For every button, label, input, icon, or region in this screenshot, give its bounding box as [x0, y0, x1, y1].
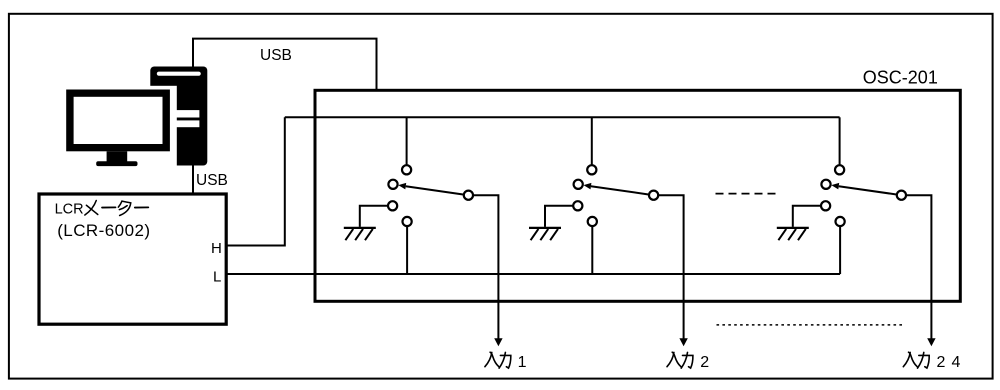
switch 1: selector arm	[406, 186, 469, 195]
tower top slot	[157, 72, 201, 76]
monitor frame	[66, 90, 170, 152]
switch 3: pole circle	[897, 191, 906, 200]
label input 2	[667, 352, 709, 371]
switch 1: contact circle top	[402, 165, 411, 174]
svg-text:LCR: LCR	[55, 202, 84, 218]
dotted continuation line bottom	[717, 324, 905, 326]
switch 3: contact circle throw	[821, 180, 830, 189]
svg-text:(LCR-6002): (LCR-6002)	[57, 221, 150, 240]
switch 1: wire top drop	[406, 117, 408, 170]
switch 3: ground stem	[793, 206, 826, 227]
switch 1: contact circle throw	[388, 180, 397, 189]
svg-text:USB: USB	[196, 172, 228, 189]
monitor stand base	[96, 161, 137, 166]
wire top bus (H line)	[285, 116, 840, 118]
arrowhead input 2	[679, 338, 687, 346]
label LCR meter line 1	[55, 201, 149, 218]
switch 1: ground hatch strokes	[345, 229, 372, 240]
switch 3: contact circle top	[835, 165, 844, 174]
switch 1: pole circle	[464, 191, 473, 200]
switch 2: wire top drop	[591, 117, 593, 170]
switch 3: contact circle ground	[821, 201, 830, 210]
label input 24	[903, 352, 960, 371]
switch 1: wire bottom drop	[406, 222, 408, 275]
OSC-201 box	[315, 90, 960, 301]
switch 3: wire bottom drop	[839, 222, 841, 275]
switch 2: contact circle top	[587, 165, 596, 174]
switch 1: contact circle bottom	[403, 217, 412, 226]
switch 2: selector arm	[591, 186, 654, 195]
computer tower	[150, 67, 207, 166]
wire bottom bus (L line)	[226, 273, 840, 275]
svg-text:1: 1	[518, 354, 527, 371]
svg-text:L: L	[213, 269, 221, 286]
wire USB from PC to LCR meter	[192, 165, 194, 194]
white gap between monitor and tower	[62, 86, 177, 169]
switch 3: ground hatch strokes	[778, 229, 805, 240]
switch 2: pole circle	[649, 191, 658, 200]
switch 1: ground stem	[360, 206, 393, 227]
monitor stand neck	[107, 151, 128, 162]
svg-text:4: 4	[952, 354, 961, 371]
switch 2: contact circle ground	[573, 201, 582, 210]
switch 1: pole wire to input 1	[468, 195, 498, 339]
svg-text:2: 2	[937, 354, 946, 371]
svg-text:2: 2	[700, 354, 709, 371]
switch 2: arm arrowhead	[584, 183, 592, 190]
arrowhead input 1	[494, 338, 502, 346]
wire H from LCR meter to top bus	[226, 117, 285, 245]
svg-text:USB: USB	[260, 47, 292, 64]
label input 1	[485, 352, 527, 371]
switch 2: contact circle bottom	[588, 217, 597, 226]
switch 3: contact circle bottom	[836, 217, 845, 226]
switch 1: arm arrowhead	[398, 183, 406, 190]
switch 3: ground bar	[777, 227, 809, 229]
dashed continuation line between switch 2 and 3	[716, 193, 781, 195]
arrowhead input 24	[927, 338, 935, 346]
svg-text:OSC-201: OSC-201	[863, 68, 938, 88]
switch 3: selector arm	[839, 186, 902, 195]
wire USB from PC to OSC-201	[193, 39, 377, 90]
LCR meter box	[39, 194, 226, 324]
switch 1: ground bar	[344, 227, 376, 229]
switch 2: ground hatch strokes	[531, 229, 558, 240]
switch 3: arm arrowhead	[831, 183, 839, 190]
switch 2: ground bar	[529, 227, 561, 229]
svg-text:H: H	[211, 240, 222, 257]
switch 3: pole wire to input 24	[901, 195, 931, 339]
tower drive bay slots	[175, 110, 199, 117]
switch 1: contact circle ground	[388, 201, 397, 210]
switch 3: wire top drop	[839, 117, 841, 170]
switch 2: contact circle throw	[574, 180, 583, 189]
switch 2: wire bottom drop	[591, 222, 593, 275]
monitor screen	[74, 97, 163, 144]
switch 2: ground stem	[545, 206, 578, 227]
switch 2: pole wire to input 2	[654, 195, 684, 339]
